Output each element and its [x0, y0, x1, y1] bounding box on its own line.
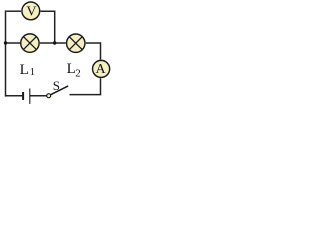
wire top branch left (to voltmeter) [6, 10, 21, 12]
wire battery to switch [30, 95, 47, 97]
wire left vertical [5, 10, 7, 96]
svg-text:V: V [26, 5, 36, 20]
svg-text:1: 1 [30, 67, 35, 78]
wire ammeter top to top-right corner [86, 43, 101, 60]
wire voltmeter right branch [41, 11, 55, 43]
wire left junction to L1 [6, 42, 21, 44]
svg-text:A: A [96, 62, 107, 77]
lamp L2 cross [69, 37, 82, 50]
battery short plate (negative) [22, 92, 24, 100]
lamp L1 circle [21, 34, 39, 52]
wire L2 to middle junction [55, 42, 66, 44]
wire bottom left (to battery) [6, 95, 23, 97]
svg-text:L: L [20, 62, 29, 78]
wire switch to bottom-right corner [70, 78, 101, 94]
svg-text:2: 2 [75, 67, 81, 79]
junction dot middle [53, 41, 56, 44]
switch arm [50, 86, 68, 95]
voltmeter U1 circle [22, 2, 40, 20]
switch pivot [47, 94, 51, 98]
lamp L1 cross [23, 37, 36, 50]
ammeter U2 circle [93, 60, 110, 77]
svg-text:S: S [53, 78, 60, 93]
junction dot left [4, 41, 7, 44]
battery long plate (positive) [29, 89, 31, 104]
wire middle junction to L1 [40, 42, 55, 44]
lamp L2 circle [67, 34, 85, 52]
